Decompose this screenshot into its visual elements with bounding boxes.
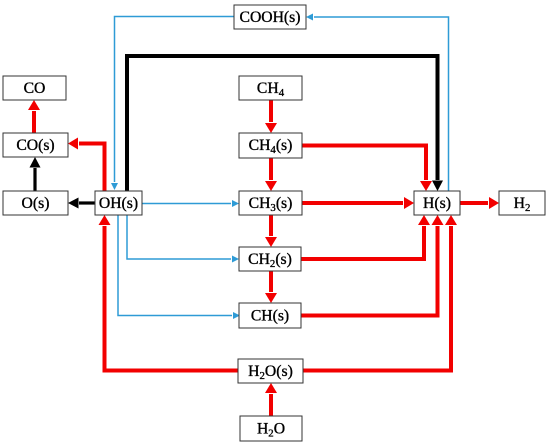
wire blue arrow OH(s) to CH3(s): [142, 203, 231, 205]
box CH2(s): [239, 247, 301, 271]
box CH3(s): [239, 191, 302, 215]
svg-text:CO: CO: [24, 80, 46, 97]
wire red arrow H2O(s) to H(s): [303, 226, 451, 371]
wire red arrow CH4(s) to CH3(s): [269, 158, 273, 180]
wire red arrow H(s) to H2: [460, 201, 488, 205]
wire red arrow CH2(s) to H(s): [301, 226, 424, 259]
wire red arrow CH(s) to H(s): [301, 226, 438, 316]
wire red arrow OH(s) to CO(s): [79, 144, 105, 192]
box H(s): [414, 191, 460, 215]
box H2O(s): [238, 359, 303, 383]
svg-text:COOH(s): COOH(s): [239, 9, 300, 26]
box CH4: [239, 76, 302, 100]
wire black arrow OH(s) to H(s): [127, 56, 438, 191]
box CO: [3, 76, 66, 100]
wire blue arrow H(s) to COOH(s): [314, 17, 449, 191]
wire red arrow CH4 to CH4(s): [269, 100, 273, 122]
svg-text:CO(s): CO(s): [16, 137, 54, 154]
svg-text:O(s): O(s): [22, 195, 50, 212]
wire blue arrow OH(s) to CH(s): [118, 215, 232, 316]
box CO(s): [3, 133, 68, 157]
wire black arrow O(s) to CO(s): [33, 168, 36, 191]
wire red arrow CH3(s) to CH2(s): [269, 215, 273, 236]
box O(s): [3, 191, 68, 215]
box CH(s): [239, 303, 301, 328]
svg-text:OH(s): OH(s): [99, 195, 138, 212]
wire red arrow CO(s) to CO: [32, 111, 36, 133]
wire red arrow CH4(s) to H(s): [302, 146, 426, 181]
wire red arrow H2O(s) to OH(s): [105, 226, 239, 371]
wire black arrow OH(s) to O(s): [79, 201, 95, 204]
box H2: [499, 191, 545, 215]
wire red arrow H2O to H2O(s): [269, 394, 273, 416]
svg-text:H2O(s): H2O(s): [248, 363, 293, 382]
svg-text:H(s): H(s): [423, 195, 451, 212]
wire red arrow CH2(s) to CH(s): [269, 271, 273, 292]
wire red arrow CH3(s) to H(s): [302, 201, 403, 205]
box COOH(s): [234, 5, 306, 29]
wire blue arrow COOH(s) to OH(s): [115, 17, 235, 183]
svg-text:CH(s): CH(s): [251, 308, 289, 325]
box H2O: [240, 416, 302, 441]
box OH(s): [95, 191, 142, 215]
box CH4(s): [239, 133, 302, 158]
wire blue arrow OH(s) to CH2(s): [127, 215, 231, 259]
